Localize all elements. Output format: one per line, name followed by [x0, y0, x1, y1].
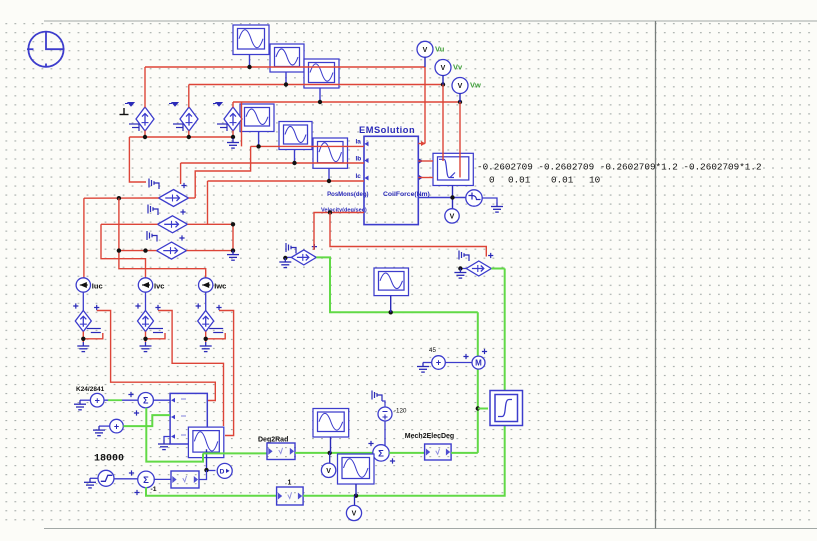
pin arrows EMSolution left — [365, 141, 369, 180]
scope position — [374, 268, 409, 296]
pin arrow EMSolution Va out — [421, 141, 426, 146]
svg-text:Ivc: Ivc — [154, 282, 164, 291]
wire green rail right — [303, 269, 505, 496]
plus mark M a — [463, 354, 468, 359]
wire E1 plus to Ib — [180, 163, 182, 184]
plus mark Iwc out — [216, 305, 221, 310]
wire Iwc control loop — [206, 333, 226, 339]
svg-text:EMSolution: EMSolution — [359, 125, 415, 135]
wire source bottom bus — [129, 136, 233, 138]
ground of Sstep — [84, 478, 96, 488]
svg-text:Vv: Vv — [453, 63, 463, 72]
wire S45 left to ground — [423, 362, 432, 364]
wire E2 out to Ic — [207, 181, 209, 224]
svg-text:Iwc: Iwc — [214, 282, 226, 291]
block B1 VCO — [170, 393, 207, 444]
wire EV bottom — [188, 131, 190, 138]
ammeter arrow Ivc — [142, 282, 149, 288]
wire Vu stem — [424, 67, 426, 144]
scope VM_v — [270, 44, 304, 72]
wire Vw lead — [459, 93, 461, 102]
wire E1 right stub — [189, 197, 196, 199]
ammeter arrow Iuc — [80, 282, 87, 288]
junction scope AM_a tap — [256, 144, 260, 148]
wire SUM1 feedback green — [146, 408, 203, 462]
wire green column mid — [477, 312, 479, 453]
voltmeter V phi1 — [321, 463, 335, 477]
wire V phi_1 stem — [329, 453, 331, 463]
scope theta_e — [338, 454, 375, 484]
wire Iwc diamond to ground — [205, 332, 207, 343]
wire stub Va — [418, 143, 425, 145]
summer SUM3 — [373, 445, 389, 461]
wire drop to ammeter Iwc — [119, 198, 206, 278]
wire S120 to SUM3 — [384, 421, 386, 446]
plus mark SUM1 a — [128, 392, 133, 397]
junction DL ground — [283, 256, 287, 260]
wire E2 row left — [101, 223, 158, 225]
wire Iuc control loop — [83, 333, 103, 339]
control terminal of DR — [459, 251, 469, 262]
junction E2 out — [231, 222, 235, 226]
marker of EW — [213, 103, 222, 107]
svg-text:0: 0 — [489, 175, 495, 186]
block Deg2Rad — [267, 443, 295, 460]
svg-text:V: V — [326, 468, 331, 475]
multiplier M — [472, 356, 485, 369]
svg-text:M: M — [475, 358, 482, 367]
wire B1 ground stub — [164, 437, 170, 441]
pin arrows EMSolution Vb Vc out — [419, 159, 423, 181]
svg-text:10: 10 — [589, 175, 600, 186]
junction bus-EW — [231, 135, 235, 139]
wire Svel right to ground — [482, 198, 497, 203]
scope AM_b — [279, 122, 312, 150]
ground of DL — [279, 258, 291, 268]
junction scope VM_v tap — [284, 82, 288, 86]
wire scope8 stub — [478, 408, 488, 410]
svg-text:Iuc: Iuc — [92, 282, 103, 291]
junction derivative node — [204, 468, 208, 472]
svg-text:+: + — [114, 421, 119, 431]
svg-text:Mech2ElecDeg: Mech2ElecDeg — [405, 433, 454, 440]
wire bus to E1 control — [129, 137, 146, 182]
wire EW bottom — [232, 131, 234, 138]
plus mark SUM2 b — [134, 490, 139, 495]
controlled source EW — [224, 107, 242, 131]
svg-text:Vw: Vw — [470, 81, 481, 90]
controlled source E2 — [158, 216, 188, 233]
scope AM_c — [313, 138, 348, 168]
block G1 gain 1 — [277, 487, 304, 505]
marker of EU — [125, 103, 134, 107]
wire Iuc to E1 row — [84, 197, 159, 199]
source SK (K24/2841) — [90, 393, 104, 407]
junction scope8 tap — [476, 406, 480, 410]
wire CoilForce out — [418, 197, 466, 199]
voltmeter V theta_e — [346, 505, 361, 520]
wire Iwc signal to B1 — [219, 311, 234, 436]
wire Ivc diamond to ground — [145, 332, 147, 343]
junction scope theta_e tap — [354, 494, 358, 498]
wire stub Vb — [418, 160, 433, 162]
source S2 — [110, 419, 124, 433]
wire drop to ammeter Ivc — [101, 224, 146, 278]
plus mark at Iwc diamond — [196, 303, 201, 308]
junction scope tap Deg2Rad — [328, 451, 332, 455]
junction Ivc ground node — [143, 337, 147, 341]
ground at E row — [227, 251, 239, 261]
wire stub Vc — [418, 177, 433, 179]
source DR velocity — [466, 261, 491, 276]
svg-text:45: 45 — [429, 347, 436, 354]
junction E3 row — [117, 248, 121, 252]
glyph Svel curve — [469, 193, 481, 200]
wire Iwc to source diamond — [205, 292, 207, 310]
sheet border top — [44, 20, 817, 22]
junction Ivc stem — [143, 248, 147, 252]
controlled source EV — [180, 107, 198, 131]
control terminal of E1 — [149, 179, 159, 190]
junction bus-EU — [143, 135, 147, 139]
sheet border bottom — [44, 528, 817, 530]
wire Vv stem — [442, 85, 444, 162]
plus mark Iuc out — [94, 305, 99, 310]
wire Iuc to source diamond — [82, 292, 84, 310]
plus mark E3 — [179, 235, 184, 240]
control terminal of E3 — [147, 231, 157, 242]
wire net Vw line — [233, 101, 460, 103]
junction velocity branch — [328, 210, 332, 214]
wire scope theta_m stem — [206, 449, 208, 470]
source S120 — [378, 407, 392, 421]
svg-text:Ib: Ib — [356, 156, 362, 163]
wire DL left node — [285, 256, 291, 258]
ammeter Iuc — [76, 278, 90, 292]
source Svel — [466, 190, 482, 206]
wire V theta_e stem — [354, 496, 356, 506]
wire S120 top hook — [382, 401, 385, 408]
wire Mech2ElecDeg out — [451, 452, 478, 454]
control bracket of EW — [217, 124, 227, 131]
wire EV top feed — [188, 85, 190, 108]
control bracket of Iuc source — [87, 329, 101, 333]
wire net Ib — [181, 162, 364, 164]
wire SK left to ground — [80, 399, 90, 401]
svg-text:0.01: 0.01 — [551, 175, 574, 186]
wire scope phi_1 stem — [330, 437, 332, 453]
wire SUM1 to B1 — [153, 399, 170, 401]
plus mark E1 — [181, 183, 186, 188]
controlled source EU — [136, 107, 154, 131]
ground of B1 — [158, 440, 170, 450]
source DL position — [291, 250, 316, 265]
ground of S45 — [417, 363, 429, 373]
marker of EV — [169, 103, 178, 107]
plus mark SUM1 b — [134, 410, 139, 415]
svg-text:+: + — [436, 358, 441, 368]
svg-text:1: 1 — [288, 480, 292, 487]
wire Vu lead — [424, 57, 426, 67]
current source of Iuc — [75, 311, 91, 332]
svg-text:18000: 18000 — [94, 454, 124, 465]
wire E1 out to Ia — [195, 146, 250, 198]
wire E3 row left — [119, 250, 157, 252]
control bracket of EV — [173, 124, 183, 131]
svg-text:V: V — [441, 65, 446, 72]
wire scope V_abc bottom stem — [452, 186, 454, 209]
svg-text:Σ: Σ — [143, 475, 149, 486]
controlled source E3 — [157, 242, 187, 259]
svg-text:D: D — [220, 469, 225, 476]
source S45 — [432, 356, 446, 370]
wire Vv lead — [442, 75, 444, 85]
scope theta_m — [188, 427, 223, 458]
ground under Iwc source — [200, 342, 212, 352]
control bracket of Ivc source — [149, 329, 163, 333]
plus mark DL — [312, 244, 317, 249]
current source of Iwc — [198, 311, 214, 332]
plus mark Ivc out — [155, 305, 160, 310]
wire Vw stem — [459, 102, 461, 178]
plus mark M b — [482, 349, 487, 354]
wire scope theta_e stem — [355, 484, 357, 496]
wire Sstep to SUM2 — [114, 478, 138, 480]
svg-text:V: V — [458, 83, 463, 90]
wire velocity to DL — [314, 213, 364, 251]
scope VM_w — [304, 59, 339, 88]
svg-text:-1: -1 — [151, 486, 157, 493]
voltmeter Vw — [452, 78, 468, 94]
summer SUM2 — [138, 471, 155, 488]
wire SUM3 to Mech2ElecDeg — [389, 452, 424, 454]
svg-text:PosMons(deg): PosMons(deg) — [327, 192, 368, 198]
svg-text:Σ: Σ — [378, 448, 384, 459]
junction Iuc ground node — [81, 337, 85, 341]
wire net Ia — [251, 145, 364, 147]
wire Iuc diamond to ground — [82, 332, 84, 343]
wire line3 branch down — [241, 102, 243, 146]
svg-text:+: + — [95, 395, 100, 405]
wire DL green to M column — [316, 257, 478, 312]
scope AM_a — [240, 104, 274, 132]
wire Sstep left to ground — [90, 477, 98, 479]
scope elec angle display — [490, 391, 523, 426]
initial-condition tee mark — [120, 108, 129, 115]
svg-text:Ia: Ia — [356, 139, 362, 146]
wire green rail left — [146, 487, 277, 496]
plus mark DR — [488, 253, 493, 258]
summer SUM1 — [138, 393, 153, 408]
wire Ivc signal to B1 — [158, 311, 224, 427]
ground under EW — [227, 139, 239, 149]
simulation clock icon — [27, 32, 65, 68]
sheet page divider — [655, 21, 657, 529]
ammeter Iwc — [199, 278, 213, 292]
svg-text:V: V — [423, 47, 428, 54]
ground of DR — [454, 269, 466, 279]
wire drop to ammeter Iuc — [83, 198, 85, 278]
junction scope AM_c tap — [327, 179, 331, 183]
control terminal of S120 — [372, 391, 382, 402]
junction Iwc ground node — [204, 337, 208, 341]
wire velocity to DR — [330, 213, 486, 257]
ammeter Ivc — [138, 278, 152, 292]
wire E3 row right — [187, 250, 234, 252]
scope phi_1 — [313, 409, 349, 438]
junction Vv line — [441, 82, 445, 86]
controlled source E1 — [159, 190, 189, 207]
ground of S2 — [93, 426, 105, 436]
wire scope position stem — [390, 296, 392, 313]
block Mech2ElecDeg — [425, 444, 452, 460]
junction bus-EV — [187, 135, 191, 139]
junction DR ground — [458, 266, 462, 270]
junction scope VM_u tap — [247, 65, 251, 69]
svg-text:K24/2841: K24/2841 — [76, 386, 105, 393]
wire net Vu line — [145, 66, 425, 68]
wire Ivc to source diamond — [145, 292, 147, 310]
wire SK to sum1 — [104, 399, 138, 401]
junction E3 out — [231, 248, 235, 252]
wire SUM2 to B2 — [154, 478, 171, 480]
svg-text:V: V — [450, 213, 455, 220]
junction scope VM_w tap — [318, 100, 322, 104]
control terminal of E2 — [148, 205, 158, 216]
wire to derivative block — [209, 470, 216, 472]
scope V_abc — [433, 153, 473, 185]
ground under Iuc source — [77, 342, 89, 352]
wire E2-E3 tie — [232, 224, 234, 250]
junction scope AM_b tap — [292, 161, 296, 165]
glyph S120 plusminus — [383, 412, 388, 420]
svg-text:V: V — [352, 511, 357, 518]
plus mark SUM3 b — [390, 458, 395, 463]
wire Deg2Rad to SUM3 — [295, 452, 373, 454]
svg-text:-120: -120 — [394, 408, 407, 415]
wire EU bottom — [144, 131, 146, 138]
wire S2 to B1 green — [123, 415, 170, 426]
wire B2 to derivative node — [199, 470, 207, 479]
scope VM_u — [233, 25, 269, 55]
wire Ivc control loop — [146, 333, 166, 339]
junction scope pos tap — [389, 310, 393, 314]
wire E2 out — [188, 223, 234, 225]
plus mark SUM2 a — [129, 470, 134, 475]
wire to Deg2Rad — [203, 452, 267, 454]
svg-text:Σ: Σ — [143, 395, 149, 405]
plus mark at Iuc diamond — [73, 303, 78, 308]
junction E1 row — [117, 196, 121, 200]
wire DR green out — [491, 268, 504, 270]
source Sstep — [98, 470, 114, 486]
derivative block D — [217, 463, 232, 478]
block B2 gain — [171, 471, 199, 488]
wire DR left node — [460, 268, 466, 270]
junction CoilForce tap — [450, 195, 454, 199]
control bracket of EU — [129, 124, 139, 131]
block U1 EMSolution — [364, 136, 418, 224]
ground of Svel — [491, 203, 503, 213]
plus mark SUM3 a — [368, 441, 373, 446]
voltmeter Vu — [417, 41, 433, 57]
wire EU top feed — [144, 67, 146, 108]
ground under Ivc source — [140, 342, 152, 352]
glyph Sstep — [101, 475, 113, 481]
voltmeter Vv — [435, 60, 451, 76]
junction Vw line — [458, 100, 462, 104]
wire EW top feed — [232, 102, 234, 108]
control bracket of Iwc source — [209, 329, 223, 333]
plus mark E2 — [180, 209, 185, 214]
plus mark at Ivc diamond — [135, 303, 140, 308]
wire Iuc signal to B1 — [97, 311, 216, 401]
wire S2 left to ground — [99, 425, 110, 427]
svg-text:Ic: Ic — [356, 173, 362, 180]
ground of SK — [74, 400, 86, 410]
svg-text:0.01: 0.01 — [508, 175, 531, 186]
current source of Ivc — [138, 311, 154, 332]
wire net Ic — [208, 180, 365, 182]
ammeter arrow Iwc — [202, 282, 209, 288]
svg-text:Vu: Vu — [435, 45, 445, 54]
svg-text:-0.2602709 -0.2602709 -0.26027: -0.2602709 -0.2602709 -0.2602709*1.2 -0.… — [477, 162, 762, 173]
wire S45 to M — [445, 362, 472, 364]
voltmeter V coilforce — [445, 209, 459, 223]
wire net Vv line — [189, 84, 443, 86]
control terminal of DL — [286, 243, 296, 254]
